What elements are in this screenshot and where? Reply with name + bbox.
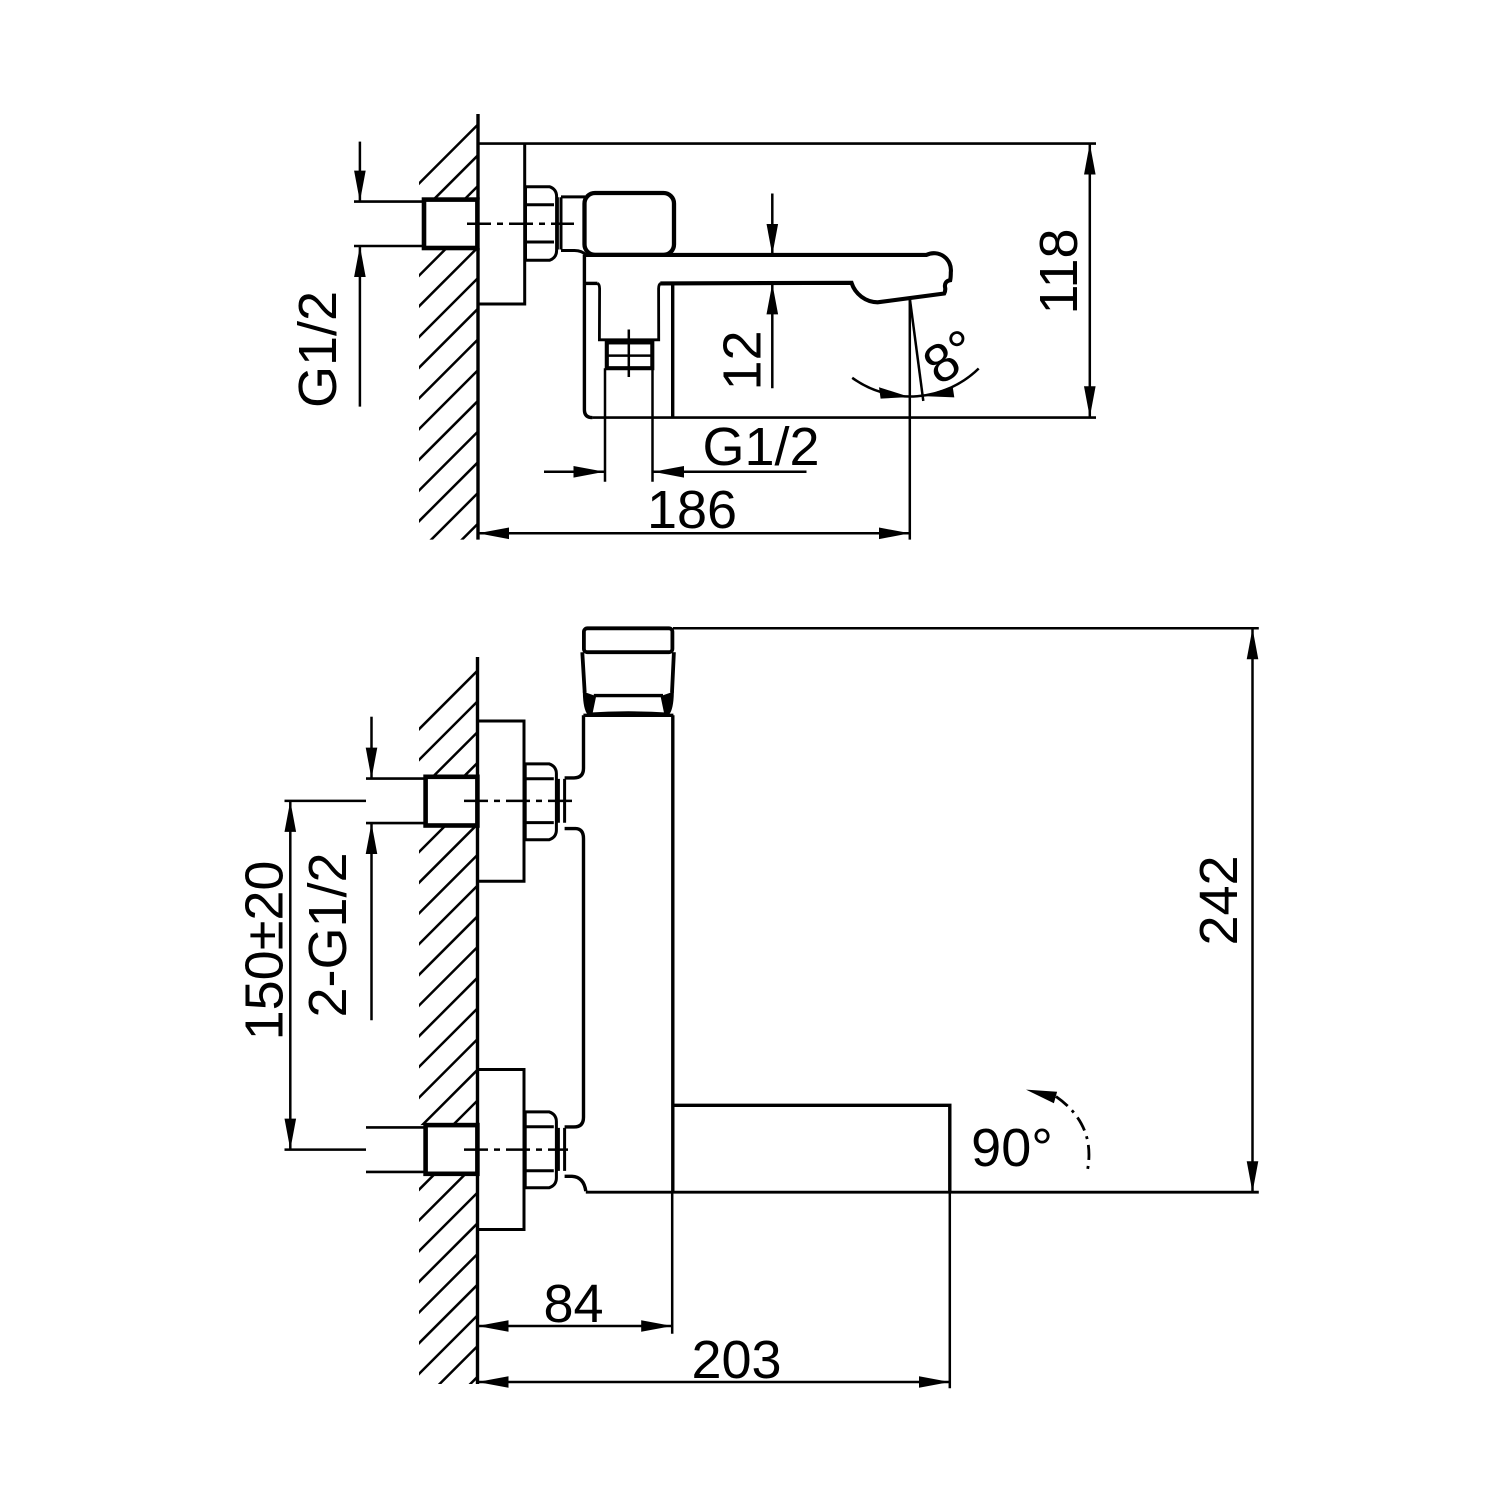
inlet neck lines (top view) (561, 197, 586, 255)
lower hex nut (bottom view) (525, 1112, 556, 1188)
hex nut (top view) (526, 187, 557, 261)
spout right edge extension for 203 (949, 1192, 952, 1388)
dimension 150+-20 (289, 801, 292, 1150)
svg-text:84: 84 (543, 1274, 603, 1334)
lower escutcheon (bottom view) (478, 1070, 525, 1230)
bottom outline / extension for 242 (bottom view) (586, 1191, 1259, 1194)
body left edge with inlet bosses (bottom view) (565, 715, 584, 778)
wall hatching (top view) (415, 120, 483, 587)
dimension G1/2 (top view inlet) (359, 142, 362, 202)
spout (top view): top line, tip with 8&#176; outlet face, underside (585, 253, 951, 302)
bottom outline / extension line for 118 (top view) (592, 416, 1096, 419)
top outline / extension line for 118 (478, 142, 1096, 145)
8 degree tilted line (910, 298, 924, 401)
svg-text:12: 12 (713, 330, 773, 390)
aerator center mark (628, 330, 631, 378)
upper collar (bottom view) (558, 779, 564, 823)
body right edge (bottom view) (671, 715, 674, 1192)
inlet pipe (top view) (354, 202, 424, 246)
8 degree reference vertical line / 186 right extension (909, 298, 912, 539)
upper escutcheon (bottom view) (478, 721, 525, 881)
pipe diameter arrow (bottom view upper) (370, 717, 373, 779)
escutcheon plate (top view) (478, 144, 525, 304)
lower centerline (bottom view) (464, 1148, 568, 1151)
dimension 186 (top view) (478, 532, 910, 535)
upper inlet pipe (bottom view) (366, 779, 426, 824)
svg-text:118: 118 (1029, 228, 1089, 314)
wall fitting (top view) (424, 200, 477, 248)
body top line (bottom view) (583, 714, 673, 717)
dimension 150+-20 extension lines (285, 801, 367, 1150)
dimension G1/2 (top view outlet) (544, 471, 605, 474)
dimension 242 (1251, 628, 1254, 1192)
dimension 12 (top view spout thickness) (771, 194, 774, 255)
svg-text:G1/2: G1/2 (288, 291, 348, 408)
svg-text:150±20: 150±20 (235, 861, 295, 1041)
dimension 84 (478, 1325, 673, 1328)
dimension 2-G1/2 (370, 823, 373, 1020)
svg-text:242: 242 (1189, 855, 1249, 945)
8 degree arc (852, 369, 979, 397)
wall line (top view) (476, 114, 479, 540)
outlet extension lines (top view) (605, 368, 653, 482)
svg-text:186: 186 (647, 480, 737, 540)
handle cap (bottom view) (584, 628, 673, 652)
spout in swung position (bottom view) (673, 1105, 950, 1192)
wall line (bottom view) (476, 657, 479, 1384)
centerline (top view inlet) (467, 223, 574, 226)
wall hatching (bottom view) (415, 665, 483, 1439)
valve cavity trapezoid (top view) (598, 283, 661, 339)
top extension for 242 (bottom view) (673, 627, 1259, 630)
dimension 118 (top view) (1089, 144, 1092, 418)
upper wall fitting (bottom view) (426, 777, 478, 826)
handle bell skirt (bottom view) (584, 693, 596, 715)
body right extension for 84 (671, 1192, 674, 1334)
90 degree rotation arc (1056, 1097, 1089, 1175)
lower wall fitting (bottom view) (426, 1125, 478, 1174)
handle (top view) (585, 193, 675, 255)
svg-text:90°: 90° (971, 1118, 1053, 1178)
svg-text:G1/2: G1/2 (702, 417, 819, 477)
upper centerline (bottom view) (464, 800, 573, 803)
svg-text:2-G1/2: 2-G1/2 (298, 852, 358, 1017)
lower valve body right edge (top view) (671, 283, 674, 417)
dimension 203 (478, 1381, 950, 1384)
lower collar (bottom view) (558, 1128, 564, 1171)
aerator outlet (top view) (607, 342, 653, 368)
handle mid section sides (bottom view) (582, 652, 674, 692)
collar between nut and body (top view) (557, 197, 561, 249)
body shoulder left segment (top view) (586, 282, 598, 285)
lower inlet pipe (bottom view) (366, 1127, 426, 1172)
svg-text:203: 203 (691, 1330, 781, 1390)
lower valve body left edge + bottom fillet (top view) (584, 255, 592, 418)
8 degree arrows (879, 387, 910, 398)
upper hex nut (bottom view) (525, 764, 556, 840)
